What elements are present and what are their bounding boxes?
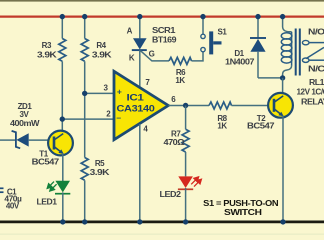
svg-text:400mW: 400mW xyxy=(10,119,40,128)
node dots on ground rail xyxy=(60,219,65,224)
relay core bars xyxy=(295,29,297,76)
wire pin4 to ground xyxy=(139,124,141,222)
svg-text:G: G xyxy=(149,50,155,59)
svg-text:S1: S1 xyxy=(218,27,228,36)
wire R8 to T2 base xyxy=(232,105,274,107)
wire S1 top from rail xyxy=(202,17,204,34)
svg-text:CA3140: CA3140 xyxy=(117,104,155,115)
svg-text:R5: R5 xyxy=(95,159,105,168)
node dot coil/D1/T2 xyxy=(280,75,285,80)
+12V red supply rail xyxy=(0,15,324,17)
node dot pin3/R4/R5 xyxy=(82,91,87,96)
wire D1 from rail xyxy=(257,17,259,38)
svg-text:BC547: BC547 xyxy=(247,122,275,131)
resistor R5 xyxy=(81,158,88,181)
svg-text:SWITCH: SWITCH xyxy=(224,207,262,217)
relay RL1 coil xyxy=(291,32,293,66)
wire output node down to R7 xyxy=(185,106,187,130)
svg-text:RELAY: RELAY xyxy=(301,97,324,106)
svg-text:+: + xyxy=(117,87,122,97)
wire T1 emitter to LED1 xyxy=(62,153,64,181)
zener ZD1 wire from left edge xyxy=(0,139,15,141)
wire ZD1 to T1 base xyxy=(29,139,55,141)
wire pin6 output xyxy=(168,105,209,107)
transistor T1 BC547 xyxy=(48,131,73,156)
LED2 red xyxy=(178,176,193,188)
relay coil wire from rail xyxy=(283,17,292,32)
ground rail xyxy=(0,221,324,224)
svg-text:40V: 40V xyxy=(6,201,20,210)
wire D1 to coil bottom node xyxy=(258,77,283,79)
svg-text:BT169: BT169 xyxy=(152,35,177,44)
svg-text:3.9K: 3.9K xyxy=(37,50,57,59)
wire R3 column top xyxy=(61,17,63,39)
svg-text:1K: 1K xyxy=(175,76,185,85)
wire node to T2 collector xyxy=(282,78,284,97)
relay armature xyxy=(306,47,324,58)
svg-text:IC1: IC1 xyxy=(127,93,145,104)
transistor T2 BC547 xyxy=(268,93,293,118)
relay N/O contact xyxy=(302,40,309,44)
node dot output xyxy=(183,103,188,108)
node dots on +12V rail xyxy=(60,14,65,19)
svg-text:LED2: LED2 xyxy=(160,190,182,199)
wire R4 bottom down to R5 xyxy=(84,61,86,157)
resistor R8 xyxy=(209,102,232,109)
wire pin2 branch xyxy=(62,118,115,120)
svg-text:1N4007: 1N4007 xyxy=(225,57,255,66)
wire T2 emitter to ground xyxy=(282,116,284,222)
svg-text:K: K xyxy=(129,54,135,63)
zener ZD1 xyxy=(12,131,21,148)
resistor R7 xyxy=(182,129,189,152)
wire R6 to S1 xyxy=(192,52,204,61)
resistor R3 xyxy=(59,39,66,62)
wire pin3 branch xyxy=(85,92,115,94)
svg-text:R4: R4 xyxy=(96,41,106,50)
svg-text:BC547: BC547 xyxy=(32,158,60,167)
diode D1 1N4007 xyxy=(250,37,266,39)
wire R4 column top xyxy=(84,17,86,39)
wire R5 bottom to ground xyxy=(84,180,86,222)
wire R7 to LED2 xyxy=(185,152,187,176)
svg-text:R3: R3 xyxy=(42,41,52,50)
svg-text:LED1: LED1 xyxy=(37,197,58,206)
wire R3 bottom to T1 collector xyxy=(61,61,63,131)
svg-text:RL1: RL1 xyxy=(309,78,324,87)
resistor R6 xyxy=(169,57,192,64)
op-amp IC1 CA3140 xyxy=(114,71,168,139)
svg-text:–: – xyxy=(116,112,121,122)
svg-text:A: A xyxy=(127,26,133,35)
SCR1 BT169 xyxy=(133,38,147,49)
svg-text:SCR1: SCR1 xyxy=(152,26,176,35)
svg-text:N/O: N/O xyxy=(308,28,324,37)
svg-text:3.9K: 3.9K xyxy=(90,168,110,177)
svg-text:3.9K: 3.9K xyxy=(92,50,112,59)
wire D1 anode down xyxy=(257,52,259,78)
wire SCR cathode to pin7 xyxy=(139,50,141,88)
wire SCR gate xyxy=(141,51,169,61)
svg-text:12V 1C/O: 12V 1C/O xyxy=(297,88,324,97)
coil bottom wire xyxy=(283,66,292,78)
switch S1 xyxy=(201,34,205,38)
LED2 emission arrows xyxy=(191,177,201,187)
relay N/C contact xyxy=(302,58,309,62)
node dot pin2/R3/T1 xyxy=(60,116,65,121)
svg-text:3V: 3V xyxy=(20,110,30,119)
LED1 emission arrows xyxy=(47,182,56,191)
svg-text:1K: 1K xyxy=(217,122,227,131)
capacitor C1 (cut off at left edge) xyxy=(0,187,4,189)
LED1 green xyxy=(55,181,70,193)
resistor R4 xyxy=(81,39,88,62)
wire SCR column from rail xyxy=(139,17,141,39)
svg-text:N/C: N/C xyxy=(308,65,324,74)
svg-text:470Ω: 470Ω xyxy=(164,138,186,147)
